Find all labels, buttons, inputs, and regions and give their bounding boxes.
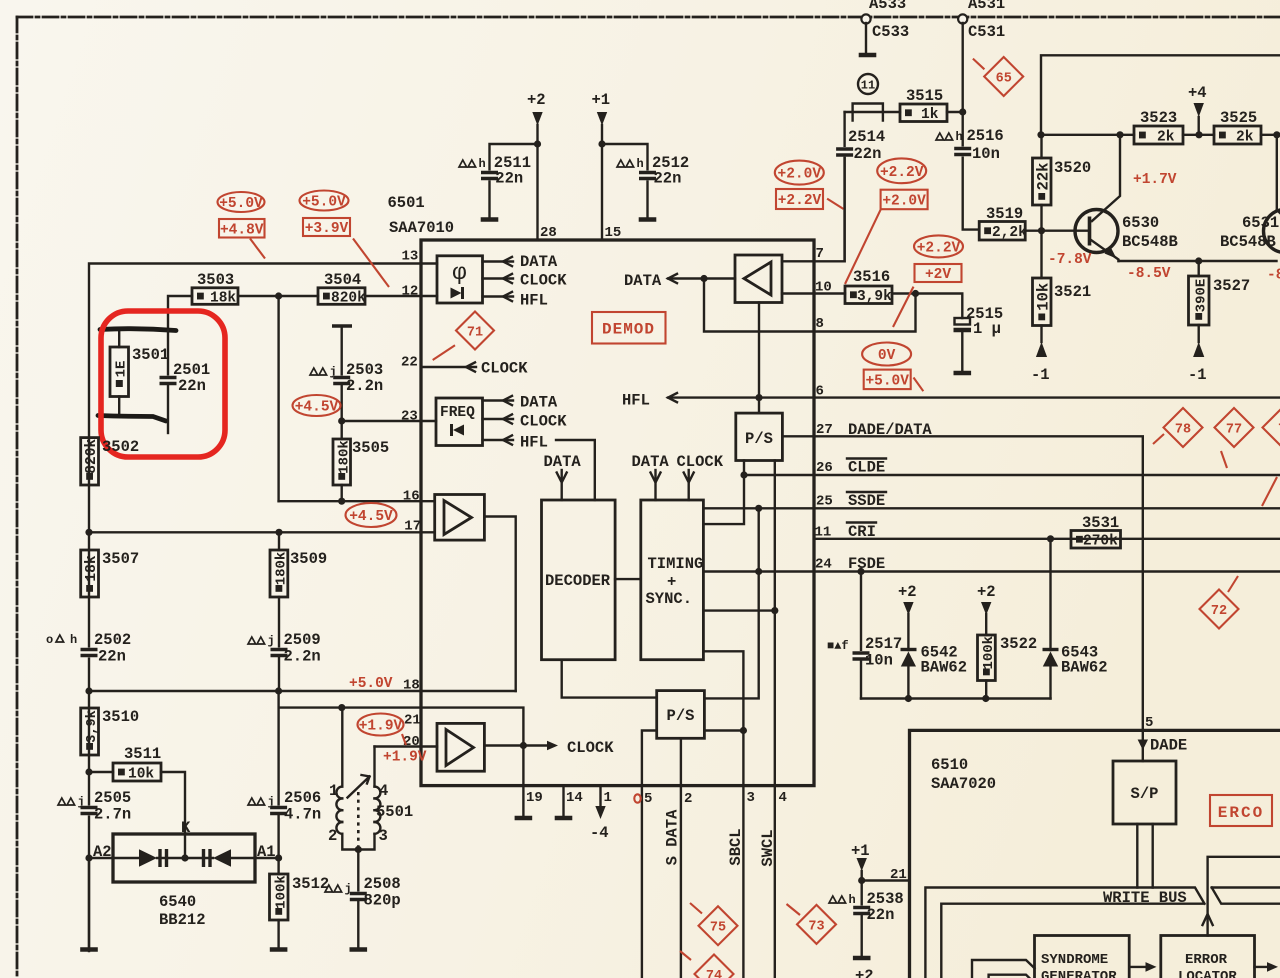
arrow DADE into S/P (1138, 740, 1148, 751)
wire top-right rail (1041, 55, 1280, 135)
svg-text:77: 77 (1226, 423, 1242, 438)
svg-text:+: + (667, 573, 676, 591)
annotation hand-drawn red circle (101, 311, 225, 457)
svg-text:3527: 3527 (1213, 277, 1250, 295)
capacitor 2501 (167, 330, 169, 376)
svg-text:10n: 10n (972, 145, 1000, 163)
annotation +2.0V ellipse left (775, 161, 824, 185)
svg-text:+4: +4 (1188, 84, 1207, 102)
svg-text:+2V: +2V (925, 267, 951, 283)
svg-text:CRI: CRI (848, 523, 876, 541)
block SYNDROME GENERATOR (1035, 936, 1130, 978)
svg-text:C531: C531 (968, 23, 1005, 41)
svg-text:h: h (70, 633, 77, 647)
wire TIMING to pin3 riser (703, 651, 743, 785)
annotation +2.2V ellipse mid (914, 235, 963, 257)
svg-text:100k: 100k (273, 875, 289, 909)
svg-text:21: 21 (404, 713, 421, 729)
pin 3 riser SBCL (742, 786, 744, 978)
wire C531 down (963, 23, 980, 230)
annotation 0V ellipse (862, 343, 911, 366)
resistor 3521 (1033, 278, 1052, 326)
annotations +5.0V/+4.8V left (218, 192, 265, 212)
capacitor 2517 (860, 572, 862, 653)
wire P/S left to pin 5 (642, 731, 657, 786)
svg-text:0V: 0V (878, 348, 896, 364)
svg-text:22n: 22n (178, 377, 206, 395)
wire pin 17 (89, 531, 421, 533)
wire pin 27 (782, 435, 814, 437)
read bus top line (1208, 857, 1280, 936)
annotation DEMOD box (592, 312, 666, 344)
svg-text:7: 7 (816, 246, 824, 262)
pin 5 riser S (641, 786, 643, 978)
svg-text:SWCL: SWCL (759, 829, 777, 866)
svg-text:2k: 2k (1157, 129, 1175, 145)
capacitor 2505 (58, 798, 66, 805)
svg-text:390E: 390E (1193, 279, 1209, 313)
pin 19 stub to ground (522, 786, 524, 816)
page border dash-dot left (16, 17, 19, 978)
svg-text:78: 78 (1175, 423, 1191, 438)
wire pin 21 line (279, 706, 421, 708)
wire P/S right (704, 729, 743, 731)
svg-text:24: 24 (815, 557, 832, 573)
wire amp to HFL line (758, 303, 760, 413)
svg-text:P/S: P/S (745, 430, 773, 448)
svg-text:BB212: BB212 (159, 911, 206, 929)
svg-text:820k: 820k (84, 439, 100, 474)
svg-text:820p: 820p (364, 892, 401, 910)
svg-text:+4.5V: +4.5V (349, 509, 393, 525)
annotation ERCO box (1210, 795, 1272, 826)
FREQ HFL stub (483, 439, 514, 441)
annotation +4.5V ellipse 2 (346, 503, 397, 527)
wire pin 11 CRI (814, 538, 1280, 540)
op-amp buffer at pins 7/10 (735, 255, 782, 303)
op-amp block phi (data slicer) (437, 256, 483, 303)
wire to 3523 (1041, 134, 1134, 136)
diamond 71 (456, 312, 494, 350)
svg-text:22k: 22k (1034, 163, 1052, 191)
svg-text:21: 21 (890, 867, 907, 883)
wire P/S drops (703, 461, 744, 525)
svg-text:5: 5 (644, 791, 652, 807)
svg-text:3509: 3509 (290, 550, 327, 568)
svg-text:8: 8 (816, 316, 824, 332)
svg-text:2506: 2506 (284, 789, 321, 807)
block S/P (1113, 761, 1176, 824)
svg-text:10k: 10k (1034, 283, 1052, 311)
svg-text:71: 71 (467, 326, 483, 341)
svg-text:CLOCK: CLOCK (520, 413, 567, 431)
annotation +1.9V ellipse (358, 714, 404, 736)
wires S/P to write bus (1137, 824, 1152, 888)
svg-text:h: h (849, 893, 856, 907)
capacitor 2509 (248, 637, 256, 644)
wire pin 26 CLDE (814, 474, 1280, 476)
svg-text:+4.5V: +4.5V (295, 400, 339, 416)
svg-text:18k: 18k (210, 290, 236, 306)
svg-text:A533: A533 (869, 0, 906, 13)
svg-text:4: 4 (379, 782, 388, 800)
page border dash-dot top (17, 16, 1280, 19)
block P/S upper (736, 413, 783, 460)
svg-text:100k: 100k (981, 636, 997, 670)
phi DATA stub (483, 260, 514, 262)
svg-text:19: 19 (526, 790, 543, 806)
svg-text:22: 22 (401, 355, 418, 371)
wire link to 2514 (843, 112, 845, 147)
svg-text:3512: 3512 (292, 875, 329, 893)
svg-text:3516: 3516 (853, 268, 890, 286)
arrow error locator out (1255, 966, 1273, 968)
svg-text:2514: 2514 (848, 128, 885, 146)
svg-text:1E: 1E (114, 361, 130, 378)
svg-text:13: 13 (402, 249, 419, 265)
transistor Q 6530 BC548B (1075, 210, 1118, 253)
svg-text:14: 14 (566, 790, 583, 806)
svg-text:3511: 3511 (124, 745, 161, 763)
transformer 5501 (341, 708, 343, 787)
node +4 (1183, 134, 1214, 136)
phi HFL stub (483, 295, 514, 297)
wire timing to vert (703, 609, 774, 611)
svg-text:11: 11 (861, 79, 875, 93)
svg-text:180k: 180k (336, 440, 352, 474)
resistor 3507 (81, 550, 99, 597)
annotations +5.0V/+3.9V (300, 191, 349, 211)
svg-text:SYNC.: SYNC. (646, 590, 693, 608)
svg-text:18k: 18k (84, 555, 100, 581)
svg-text:2: 2 (684, 791, 692, 807)
svg-text:10k: 10k (128, 766, 154, 782)
svg-text:BC548B: BC548B (1122, 233, 1178, 251)
svg-text:73: 73 (808, 919, 824, 934)
svg-text:3: 3 (379, 827, 388, 845)
svg-text:SAA7020: SAA7020 (931, 775, 996, 793)
svg-text:DATA: DATA (520, 253, 558, 271)
svg-text:DECODER: DECODER (545, 572, 611, 590)
svg-text:BC548B: BC548B (1220, 233, 1276, 251)
svg-text:6530: 6530 (1122, 214, 1159, 232)
jumper link 11 (858, 74, 878, 94)
resistor 3502 (81, 438, 99, 485)
svg-text:4.7n: 4.7n (284, 806, 321, 824)
svg-text:GENERATOR: GENERATOR (1041, 969, 1117, 978)
svg-text:-8.5V: -8.5V (1127, 266, 1171, 282)
svg-text:ERCO: ERCO (1218, 804, 1264, 822)
svg-text:+4.8V: +4.8V (220, 222, 264, 238)
wire DATA output arrow (668, 277, 735, 279)
annotation +2.0V box right (881, 190, 928, 210)
svg-text:2: 2 (328, 827, 337, 845)
op-amp buffer pins 16/17 (435, 495, 485, 541)
hand stroke bottom (98, 416, 166, 422)
svg-text:2,2k: 2,2k (992, 225, 1027, 241)
wire pin6 HFL line (668, 396, 1280, 398)
svg-text:3521: 3521 (1054, 283, 1091, 301)
svg-text:3523: 3523 (1140, 109, 1177, 127)
svg-text:5501: 5501 (376, 803, 413, 821)
wire pin 8 outer (814, 294, 916, 332)
wire pin8 internal riser (704, 279, 814, 332)
svg-text:3: 3 (747, 790, 755, 806)
svg-text:DATA: DATA (520, 394, 558, 412)
svg-text:3525: 3525 (1220, 109, 1257, 127)
block P/S lower (657, 691, 705, 739)
svg-text:3515: 3515 (906, 87, 943, 105)
svg-text:2.2n: 2.2n (346, 377, 383, 395)
svg-text:2k: 2k (1236, 129, 1254, 145)
rail to diodes (861, 697, 1051, 699)
block TIMING+SYNC (641, 500, 704, 660)
svg-text:-4: -4 (590, 824, 609, 842)
node A531 feedthrough (958, 14, 967, 23)
svg-text:CLOCK: CLOCK (481, 360, 528, 378)
wire 3511 to K (161, 772, 185, 858)
wire pin21 internal (421, 708, 523, 786)
block ERROR LOCATOR (1161, 936, 1255, 978)
diode 6543 BAW62 (1049, 539, 1051, 650)
svg-text:P/S: P/S (667, 707, 695, 725)
wire pin 24 FSDE (814, 570, 1280, 572)
svg-text:+1: +1 (592, 91, 611, 109)
svg-text:-1: -1 (1188, 366, 1207, 384)
svg-text:6531: 6531 (1242, 214, 1279, 232)
svg-text:+1.9V: +1.9V (359, 719, 403, 735)
svg-text:3522: 3522 (1000, 635, 1037, 653)
svg-text:3520: 3520 (1054, 159, 1091, 177)
grounds bottom left (88, 858, 90, 948)
FREQ DATA stub (483, 399, 514, 401)
op-amp buffer pin 20 clock (437, 723, 484, 771)
annotation +5.0V box (864, 370, 911, 390)
svg-text:10n: 10n (865, 652, 893, 670)
emitter rail -8.5V (1119, 260, 1277, 262)
annotation +2V box mid (915, 264, 962, 282)
svg-text:22n: 22n (654, 170, 682, 188)
wire P/S bottom pin 2 (680, 738, 682, 785)
svg-text:26: 26 (816, 460, 833, 476)
resistor 3512 (277, 815, 279, 875)
pin 22 CLOCK stub (421, 366, 476, 368)
svg-text:DATA: DATA (544, 453, 582, 471)
svg-text:CLOCK: CLOCK (520, 272, 567, 290)
transformer adjust arrow (348, 775, 370, 798)
WRITE BUS channel (925, 888, 1204, 978)
svg-text:+5.0V: +5.0V (349, 676, 393, 692)
svg-text:DADE/DATA: DADE/DATA (848, 421, 932, 439)
capacitor 2506 (248, 798, 256, 805)
vertical 3503 node riser (277, 296, 279, 501)
svg-text:+2: +2 (898, 583, 917, 601)
svg-text:1: 1 (604, 790, 612, 806)
op-amp U1: IC 6501 SAA7010 outline (421, 240, 814, 786)
capacitor 2511 (490, 144, 538, 171)
svg-text:WRITE BUS: WRITE BUS (1103, 889, 1187, 907)
svg-text:3504: 3504 (324, 271, 361, 289)
svg-text:FREQ: FREQ (440, 405, 475, 421)
svg-text:TIMING: TIMING (648, 555, 704, 573)
svg-text:+5.0V: +5.0V (865, 373, 909, 389)
svg-text:15: 15 (605, 225, 622, 241)
wire clock output arrow (484, 744, 552, 746)
diamond 65 (984, 57, 1023, 96)
svg-text:6540: 6540 (159, 893, 196, 911)
wire DECODER to lower P/S (562, 660, 657, 698)
diode D left of 6540 (139, 849, 157, 866)
wire pin 27 DADE/DATA (814, 436, 1143, 761)
diamonds 78 77 and edge (1164, 408, 1203, 447)
resistor 3509 (270, 550, 288, 597)
svg-text:3501: 3501 (132, 346, 169, 364)
wire pin 18 +5.0V (89, 690, 421, 692)
pin 4 riser SWCL (774, 786, 776, 978)
svg-text:180k: 180k (273, 552, 289, 586)
svg-text:270k: 270k (1083, 534, 1118, 550)
svg-text:CLDE: CLDE (848, 459, 885, 477)
svg-text:+2.2V: +2.2V (778, 193, 822, 209)
diamond 73 (797, 905, 836, 944)
svg-text:+2: +2 (977, 583, 996, 601)
wire pin 26 internal (744, 474, 814, 476)
diamond 75 (699, 906, 738, 945)
svg-text:CLOCK: CLOCK (567, 739, 614, 757)
svg-text:6501: 6501 (388, 194, 425, 212)
svg-text:4: 4 (779, 790, 787, 806)
capacitor 2512 (602, 144, 648, 171)
svg-text:2.2n: 2.2n (284, 648, 321, 666)
diode D right of 6540 (213, 849, 231, 866)
resistor 3520 (1033, 158, 1052, 205)
svg-text:■▲f: ■▲f (827, 639, 849, 653)
svg-text:74: 74 (706, 969, 722, 978)
svg-text:-8: -8 (1267, 268, 1280, 284)
svg-text:+5.0V: +5.0V (302, 195, 346, 211)
svg-text:22n: 22n (867, 906, 895, 924)
resistor 3505 (333, 439, 351, 485)
capacitor 2516 (936, 133, 944, 140)
wire HFL to DECODER (556, 440, 595, 500)
svg-text:S DATA: S DATA (664, 809, 682, 866)
svg-text:SSDE: SSDE (848, 492, 885, 510)
svg-text:-7.8V: -7.8V (1048, 252, 1092, 268)
svg-text:DEMOD: DEMOD (602, 321, 655, 339)
svg-text:FSDE: FSDE (848, 555, 885, 573)
svg-text:LOCATOR: LOCATOR (1178, 969, 1237, 978)
svg-text:3,9k: 3,9k (85, 710, 100, 742)
svg-text:+2.0V: +2.0V (882, 193, 926, 209)
svg-text:22n: 22n (495, 170, 523, 188)
pin 14 stub to ground (562, 786, 564, 816)
svg-text:22n: 22n (98, 648, 126, 666)
svg-text:3505: 3505 (352, 439, 389, 457)
svg-text:2509: 2509 (284, 631, 321, 649)
svg-text:j: j (268, 634, 275, 648)
svg-text:2.7n: 2.7n (94, 806, 131, 824)
svg-text:-1: -1 (1031, 366, 1050, 384)
svg-text:820k: 820k (331, 290, 366, 306)
svg-text:+1.7V: +1.7V (1133, 172, 1177, 188)
svg-text:1: 1 (329, 782, 338, 800)
bus right segment (1212, 886, 1280, 888)
annotation +4.5V ellipse (293, 395, 341, 416)
capacitor 2508 (357, 850, 359, 893)
svg-text:DADE: DADE (1150, 737, 1187, 755)
diamond 72 (1200, 590, 1239, 629)
arrow syndrome to error locator (1129, 966, 1151, 968)
wire pin 18 internal (421, 690, 516, 692)
svg-text:o: o (46, 633, 53, 647)
ground (859, 53, 877, 57)
resistor 3527 (1189, 276, 1210, 325)
svg-text:+3.9V: +3.9V (305, 221, 349, 237)
svg-text:ERROR: ERROR (1185, 952, 1228, 968)
wire 3515 to C531 line (947, 111, 963, 113)
svg-text:+1.9V: +1.9V (383, 750, 427, 766)
hand stroke top (100, 329, 176, 331)
svg-text:75: 75 (710, 921, 726, 936)
wire pin10 inside (782, 292, 814, 294)
svg-text:DATA: DATA (624, 272, 662, 290)
wire pin 25 internal (703, 507, 814, 509)
phi CLOCK stub (483, 277, 514, 279)
svg-text:+2.2V: +2.2V (917, 240, 961, 256)
wire pin7 (782, 158, 845, 261)
wire 3525 right (1261, 134, 1277, 136)
svg-text:h: h (479, 157, 486, 171)
svg-text:3502: 3502 (102, 438, 139, 456)
svg-text:C533: C533 (872, 23, 909, 41)
svg-text:BAW62: BAW62 (1061, 659, 1108, 677)
svg-text:SYNDROME: SYNDROME (1041, 952, 1108, 968)
svg-text:22n: 22n (854, 145, 882, 163)
svg-text:72: 72 (1211, 604, 1227, 619)
svg-text:1k: 1k (921, 107, 939, 123)
svg-text:+2.2V: +2.2V (880, 165, 924, 181)
varicap 6540 BB212 (113, 834, 255, 882)
svg-text:h: h (956, 130, 963, 144)
svg-text:6510: 6510 (931, 756, 968, 774)
wire C533 to ground (865, 23, 867, 53)
pin 1 stub to -4 (599, 786, 601, 806)
svg-text:SBCL: SBCL (727, 828, 745, 865)
capacitor 2503 (332, 324, 352, 327)
svg-text:2516: 2516 (967, 127, 1004, 145)
FREQ CLOCK stub (483, 418, 514, 420)
wire pin 24 internal (703, 570, 814, 572)
wire 2514 down to pin7 corner (843, 158, 845, 261)
op-amp block FREQ (436, 398, 483, 446)
coil 3501 (110, 347, 129, 397)
svg-text:+2.0V: +2.0V (778, 167, 822, 183)
svg-text:HFL: HFL (520, 434, 548, 452)
svg-text:28: 28 (540, 225, 557, 241)
svg-text:65: 65 (996, 72, 1012, 87)
node A533 feedthrough (861, 14, 870, 23)
svg-text:h: h (637, 157, 644, 171)
svg-text:2517: 2517 (865, 635, 902, 653)
svg-text:3,9k: 3,9k (857, 289, 892, 305)
wire pin 25 SSDE (814, 507, 1280, 509)
annotation +2.2V ellipse right (877, 158, 926, 183)
svg-text:3510: 3510 (102, 708, 139, 726)
svg-text:+5.0V: +5.0V (219, 196, 263, 212)
annotation +2.2V box left (776, 189, 823, 209)
svg-text:A531: A531 (968, 0, 1005, 13)
wire amp1 output to pin18 rail (484, 517, 515, 692)
